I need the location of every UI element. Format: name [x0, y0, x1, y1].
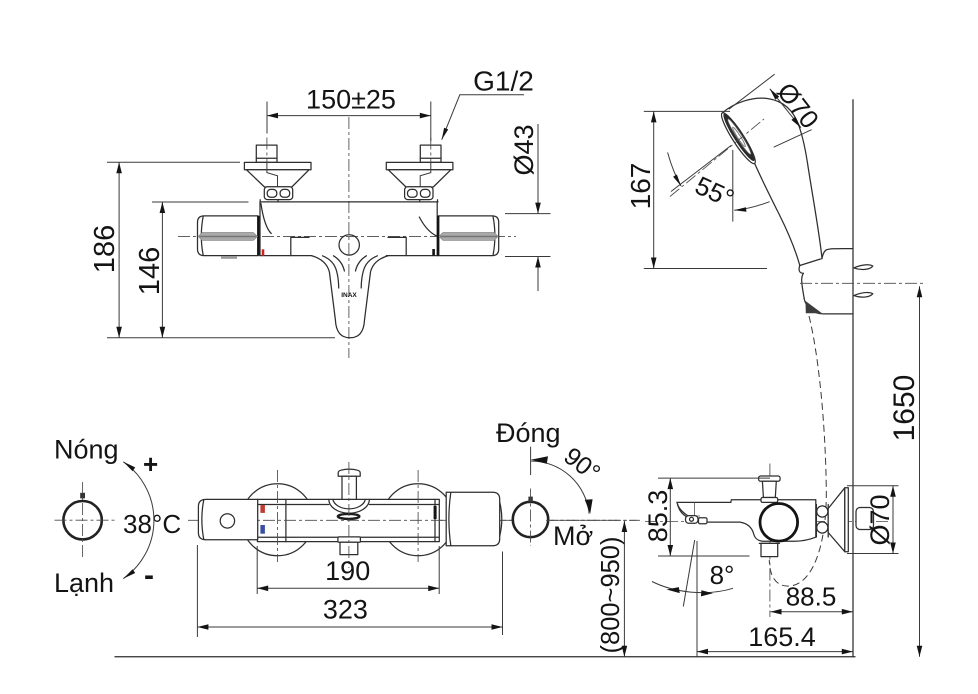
handle block left end arc	[202, 500, 204, 540]
body tube fillet right	[419, 217, 436, 236]
svg-text:Nóng: Nóng	[54, 435, 119, 465]
spout tip curl	[678, 504, 686, 516]
shower head and handle body	[722, 98, 822, 265]
handle right grip band midline	[440, 236, 497, 238]
dim 165.4 arrow left	[697, 649, 708, 655]
wall bracket shade	[806, 301, 823, 313]
diverter dome inner arc	[333, 499, 365, 508]
centerline vertical front view	[348, 117, 350, 358]
black indicator front view	[432, 249, 435, 256]
angle 55 arrow left	[673, 175, 681, 187]
spout outlet axis line	[689, 503, 700, 524]
hot indicator red	[260, 505, 265, 513]
bar inner line bottom	[258, 536, 439, 538]
centerline left circle	[277, 470, 279, 562]
dim 1650 line	[919, 286, 921, 657]
shower head face	[717, 110, 759, 167]
svg-text:Mở: Mở	[553, 521, 593, 551]
knob stem	[762, 481, 776, 497]
spool nut sides	[816, 505, 828, 538]
svg-text:167: 167	[625, 163, 656, 210]
bar inner line left	[285, 499, 287, 541]
union right hex cap	[420, 145, 441, 162]
dim 186 line	[118, 162, 120, 338]
dong vertical line	[530, 447, 532, 475]
svg-text:Ø43: Ø43	[509, 124, 539, 175]
bracket centerline	[800, 282, 925, 284]
mo dial centerline extension	[546, 519, 637, 521]
body bar top view	[257, 499, 439, 541]
angle 55 arc left	[668, 153, 681, 187]
dim 85.3 extension top	[658, 477, 770, 479]
handle left end arc	[201, 216, 203, 255]
arc 90 arrow right	[585, 499, 593, 514]
dim 88.5 arrow left	[771, 609, 782, 615]
temperature arc arrow top	[123, 462, 135, 471]
spout inner curve left 2	[334, 256, 345, 271]
union right ring 2	[420, 189, 430, 197]
bar inner line top	[258, 504, 439, 506]
dim Ø43 arrow bottom	[535, 257, 541, 268]
svg-text:-: -	[144, 559, 154, 592]
body inner edge right	[388, 237, 406, 255]
dim 186 146 extension bottom	[107, 337, 335, 339]
diverter dome	[329, 499, 370, 513]
shower head axis centerline	[670, 119, 764, 197]
aerator part 2	[699, 518, 708, 524]
dim 186 arrow bottom	[116, 327, 122, 338]
dim 1650 arrow bottom	[917, 646, 923, 657]
temperature dial centerline vertical	[82, 482, 84, 559]
body right edge	[436, 202, 438, 256]
svg-text:G1/2: G1/2	[473, 66, 534, 97]
dim 150±25 arrow left	[267, 113, 278, 119]
svg-text:(800~950): (800~950)	[597, 537, 625, 654]
wall bracket bottom	[804, 298, 853, 314]
handle block right top view	[446, 492, 500, 546]
diverter knob stem top view	[338, 469, 360, 476]
aerator screw	[690, 517, 694, 521]
red indicator front view	[262, 249, 265, 255]
spout inner curve left 1	[323, 256, 339, 288]
centerline diverter	[348, 462, 350, 568]
floor line	[115, 656, 855, 658]
svg-text:85.3: 85.3	[643, 490, 673, 543]
union left cone	[247, 170, 310, 187]
knob stem flange top	[759, 476, 781, 481]
angle 55 arc right	[734, 202, 769, 211]
temperature dial tick	[80, 493, 85, 499]
dim 167 arrow top	[651, 111, 657, 122]
handle left hole	[220, 514, 234, 528]
body inner edge left	[291, 237, 309, 255]
spout outline	[312, 256, 389, 338]
dim 146 arrow top	[160, 202, 166, 213]
arc 90	[531, 461, 590, 514]
handle right grip band	[439, 233, 498, 241]
dim 1650 arrow top	[917, 286, 923, 297]
side body outline	[677, 500, 816, 541]
dim Ø70 head extension upper	[729, 74, 775, 109]
dim 800-950 arrow top	[622, 521, 628, 532]
dim 85.3 line	[669, 478, 671, 556]
union right cap centerline	[430, 138, 432, 163]
angle 8 tilted line	[683, 540, 694, 607]
dim 88.5 line	[771, 611, 853, 613]
union right ring 1	[408, 189, 418, 197]
body left edge	[259, 202, 261, 256]
dim 323 extension left	[196, 545, 198, 637]
diverter dome ellipse	[338, 514, 360, 519]
handle block right inner arc	[449, 493, 451, 546]
union left hex cap	[256, 145, 277, 162]
svg-text:150±25: 150±25	[306, 85, 396, 115]
union right cone	[388, 170, 451, 187]
bar inner line right	[434, 499, 436, 541]
body top edge	[260, 201, 438, 203]
dim Ø70 wall extension bottom	[847, 553, 899, 555]
body bottom edge right	[386, 255, 438, 257]
side centerline horizontal	[645, 521, 890, 523]
dim Ø43 extension top	[505, 213, 551, 215]
top view centerline horizontal	[188, 519, 640, 521]
handle left grip band midline	[200, 236, 257, 238]
label G1/2 arrow	[442, 128, 449, 140]
dim 190 extension right	[438, 546, 440, 594]
angle 8 arc	[652, 582, 733, 593]
dim Ø43 arrow top	[535, 203, 541, 214]
dim 186 arrow top	[116, 162, 122, 173]
centerline horizontal front view	[178, 235, 516, 237]
dim 323 extension right	[502, 552, 504, 636]
svg-text:+: +	[143, 449, 158, 479]
dim 150±25 line	[267, 115, 431, 117]
body centerline over bar	[200, 519, 620, 521]
angle 55 reference line	[671, 146, 731, 192]
union left ring 1	[267, 189, 277, 197]
flow dial centerline vertical	[530, 489, 532, 547]
svg-text:Ø70: Ø70	[865, 494, 895, 545]
centerline right circle	[417, 470, 419, 562]
side centerline vertical	[769, 464, 771, 618]
dim 190 arrow right	[428, 586, 439, 592]
dim 165.4 arrow right	[842, 649, 853, 655]
dim Ø70 head arrow upper	[770, 89, 780, 100]
dim 186 extension top	[107, 161, 240, 163]
wall tick upper	[854, 265, 873, 270]
dim 190 extension left	[256, 546, 258, 594]
angle 8 arrow left	[667, 587, 680, 593]
outlet square side view	[761, 543, 778, 556]
svg-text:165.4: 165.4	[748, 622, 816, 652]
dim Ø70 head arrow lower	[791, 117, 801, 128]
behind-wall union	[856, 508, 874, 530]
label G1/2 leader	[442, 95, 524, 140]
svg-text:Lạnh: Lạnh	[54, 568, 114, 598]
dim 146 extension top	[152, 201, 249, 203]
wall bracket left	[799, 266, 804, 299]
dim Ø43 line top	[537, 124, 539, 214]
aerator part 1	[686, 516, 699, 524]
union left flange	[244, 162, 311, 169]
dim 146 line	[161, 202, 163, 338]
dim Ø70 head extension lower	[774, 130, 812, 148]
handle right inner edge thick	[437, 216, 439, 256]
flow dial tick	[528, 497, 532, 502]
handle left	[198, 216, 259, 256]
dim 146 arrow bottom	[160, 327, 166, 338]
svg-text:8°: 8°	[710, 560, 735, 590]
black indicator top view	[434, 506, 437, 519]
escutcheon circle right	[382, 484, 454, 556]
dim 800-950 arrow bottom	[622, 646, 628, 657]
dim 190 arrow left	[257, 586, 268, 592]
temperature arc arrow bottom	[123, 569, 135, 578]
union right cap facet	[420, 157, 441, 159]
handle right	[438, 216, 499, 256]
dim Ø43 extension bottom	[505, 256, 551, 258]
union left rings band	[264, 187, 292, 200]
union left ring 2	[280, 189, 290, 197]
svg-text:1650: 1650	[888, 375, 921, 442]
hose dashed	[769, 316, 826, 586]
union right tube stubs	[420, 200, 438, 202]
handle block right bump	[500, 502, 502, 536]
handle left inner edge thick	[257, 216, 259, 256]
dim Ø70 head line	[770, 89, 801, 128]
valve circle side view	[760, 504, 798, 542]
dim 167 extension bottom	[644, 268, 767, 270]
svg-text:146: 146	[134, 247, 166, 295]
wall cone	[828, 488, 845, 552]
body tube fillet left	[261, 204, 271, 234]
dim 323 arrow left	[197, 624, 208, 630]
dim 167 line	[653, 111, 655, 268]
handle left grip band	[198, 233, 257, 241]
wall bracket top	[822, 249, 853, 259]
union left cap facet	[256, 157, 277, 159]
dim 85.3 arrow bottom	[668, 545, 674, 556]
knob base flange	[761, 498, 778, 503]
flow dial circle	[513, 502, 548, 537]
diverter knob stem sides	[342, 476, 356, 499]
spool nut upper	[817, 506, 828, 517]
union right rings band	[405, 187, 433, 200]
wall cone rim	[845, 488, 849, 552]
handle block left top view	[198, 499, 257, 539]
temperature dial centerline horizontal	[55, 519, 118, 521]
union right flange	[386, 162, 453, 169]
dim Ø70 wall extension top	[847, 485, 899, 487]
svg-text:186: 186	[89, 225, 121, 273]
dim 167 arrow bottom	[651, 258, 657, 269]
svg-text:88.5: 88.5	[786, 582, 837, 612]
dim 800-950 line	[623, 521, 625, 657]
dim 165.4 extension left	[696, 541, 698, 657]
handle left small label	[221, 256, 237, 258]
svg-text:323: 323	[323, 595, 368, 625]
spout inner curve right 2	[356, 256, 367, 271]
cold indicator blue	[260, 525, 265, 534]
dim Ø70 wall line	[892, 486, 894, 554]
svg-text:Đóng: Đóng	[496, 418, 561, 448]
spout inner curve right 1	[361, 256, 377, 288]
dim 88.5 arrow right	[842, 609, 853, 615]
dim 85.3 extension bottom	[658, 555, 750, 557]
wall tick lower	[854, 292, 873, 297]
union left cap centerline	[266, 138, 268, 163]
arc 90 arrow top	[531, 456, 548, 464]
body bottom edge left	[260, 255, 312, 257]
outlet square top view	[340, 542, 358, 554]
dim 190 line	[257, 587, 439, 589]
svg-text:INAX: INAX	[341, 292, 357, 299]
dim 150±25 arrow right	[420, 113, 431, 119]
temperature dial circle	[63, 501, 101, 539]
wall line	[852, 100, 854, 657]
dim 85.3 arrow top	[668, 478, 674, 489]
dim 150±25 extension left	[266, 102, 268, 134]
dim Ø70 wall arrow bottom	[890, 543, 896, 554]
dim 323 arrow right	[492, 624, 503, 630]
union left tube stubs	[260, 200, 278, 202]
dim 323 line	[197, 626, 502, 628]
temperature arc	[123, 462, 154, 579]
union right internal S-bend	[420, 162, 431, 186]
angle 8 arrow right	[701, 590, 713, 596]
diverter circle front	[339, 235, 359, 255]
outlet flange line	[759, 542, 779, 544]
spool nut lower	[817, 522, 828, 533]
dim 150±25 extension right	[430, 102, 432, 142]
angle 55 vertical line	[732, 150, 734, 222]
dim Ø43 line bottom	[537, 257, 539, 292]
dim Ø70 wall arrow top	[890, 486, 896, 497]
svg-text:190: 190	[325, 556, 370, 586]
dim 167 extension top	[644, 110, 730, 112]
dim 165.4 line	[697, 651, 853, 653]
angle 55 arrow right	[734, 207, 746, 211]
escutcheon circle left	[242, 484, 314, 556]
union left internal S-bend	[267, 162, 278, 186]
handle right end arc	[493, 216, 495, 255]
outlet flange top view	[338, 537, 361, 542]
